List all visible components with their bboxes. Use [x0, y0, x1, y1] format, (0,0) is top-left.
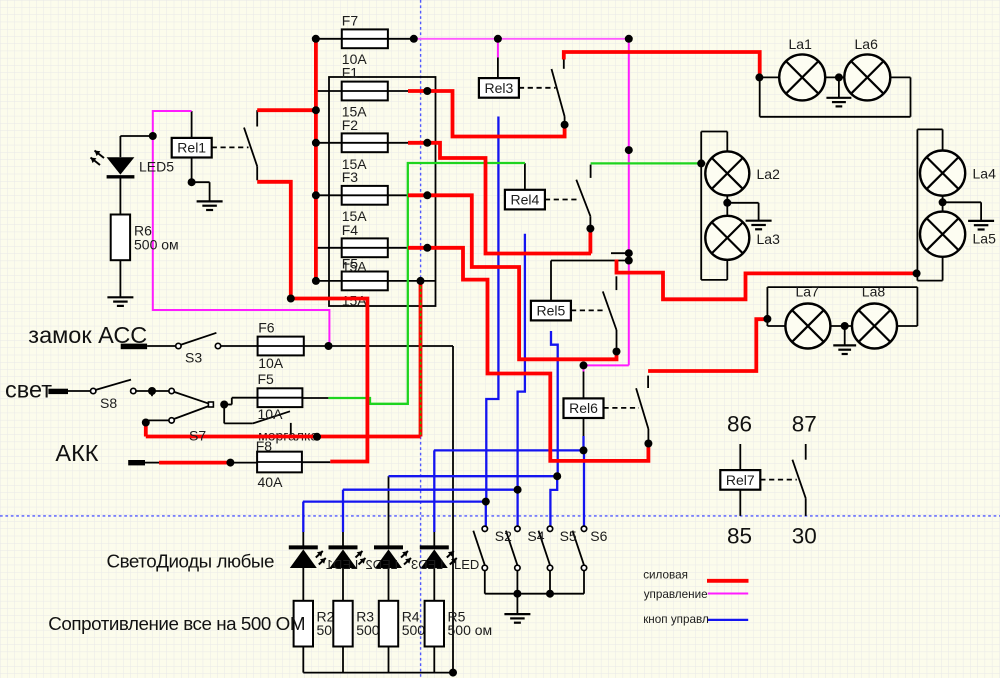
svg-text:La1: La1	[789, 36, 813, 52]
svg-text:La3: La3	[757, 231, 781, 247]
svg-text:La2: La2	[757, 166, 781, 182]
svg-text:свет: свет	[5, 377, 52, 403]
svg-text:15A: 15A	[342, 259, 368, 275]
svg-text:85: 85	[727, 524, 752, 549]
svg-text:LED3: LED3	[411, 557, 444, 572]
svg-text:F6: F6	[258, 320, 275, 336]
svg-text:La6: La6	[855, 36, 879, 52]
svg-text:LED2: LED2	[365, 557, 398, 572]
svg-text:La4: La4	[973, 166, 997, 182]
svg-text:Сопротивление все на 500 ОМ: Сопротивление все на 500 ОМ	[48, 613, 305, 634]
svg-text:40A: 40A	[258, 474, 284, 490]
svg-text:F8: F8	[256, 438, 273, 454]
svg-text:Rel3: Rel3	[485, 80, 514, 96]
svg-text:F2: F2	[342, 117, 359, 133]
svg-text:кноп управл: кноп управл	[643, 613, 709, 626]
svg-text:F5: F5	[258, 371, 275, 387]
svg-text:управление: управление	[644, 588, 708, 601]
svg-text:86: 86	[727, 412, 752, 437]
svg-text:Rel5: Rel5	[537, 303, 566, 319]
svg-text:F7: F7	[342, 13, 359, 29]
svg-text:500: 500	[402, 622, 426, 638]
svg-text:500 ом: 500 ом	[134, 237, 179, 253]
svg-text:30: 30	[792, 524, 817, 549]
svg-text:Rel7: Rel7	[726, 472, 755, 488]
svg-text:15A: 15A	[342, 293, 368, 309]
svg-text:F4: F4	[342, 222, 359, 238]
svg-text:LED1: LED1	[326, 557, 359, 572]
svg-text:LED: LED	[454, 557, 479, 572]
svg-text:S5: S5	[560, 528, 577, 544]
svg-text:La5: La5	[973, 231, 997, 247]
svg-text:S4: S4	[527, 528, 544, 544]
svg-text:S2: S2	[495, 528, 512, 544]
svg-text:87: 87	[792, 412, 817, 437]
svg-text:S8: S8	[100, 395, 117, 411]
svg-text:Rel6: Rel6	[569, 400, 598, 416]
svg-text:La8: La8	[862, 284, 886, 300]
svg-text:замок АСС: замок АСС	[28, 322, 147, 348]
svg-text:F1: F1	[342, 65, 359, 81]
svg-text:АКК: АКК	[55, 440, 98, 466]
svg-text:Rel4: Rel4	[511, 192, 540, 208]
svg-text:S6: S6	[590, 528, 607, 544]
svg-text:10A: 10A	[258, 406, 284, 422]
svg-text:Rel1: Rel1	[177, 140, 206, 156]
svg-text:10A: 10A	[258, 355, 284, 371]
svg-text:LED5: LED5	[139, 159, 174, 175]
svg-text:500: 500	[356, 622, 380, 638]
svg-text:СветоДиоды любые: СветоДиоды любые	[107, 551, 274, 572]
svg-text:S7: S7	[189, 428, 206, 444]
svg-text:силовая: силовая	[643, 569, 688, 582]
svg-text:S3: S3	[185, 350, 202, 366]
svg-text:500 ом: 500 ом	[448, 622, 493, 638]
svg-text:F3: F3	[342, 169, 359, 185]
svg-text:La7: La7	[796, 284, 820, 300]
